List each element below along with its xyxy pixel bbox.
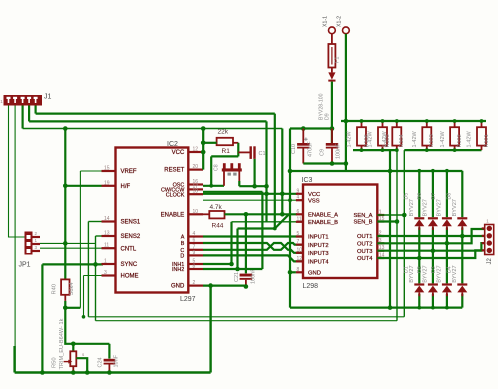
svg-text:SENS1: SENS1 xyxy=(121,220,141,226)
svg-text:1-42W: 1-42W xyxy=(347,130,353,147)
svg-text:R101: R101 xyxy=(484,134,490,147)
svg-text:R44: R44 xyxy=(212,222,224,229)
wire bottom clamp rail y307.6 xyxy=(290,307,462,309)
svg-text:J2: J2 xyxy=(487,258,493,265)
wire J1 pin5 down xyxy=(34,106,36,114)
wire OSC pin line xyxy=(203,185,224,187)
wire +V rail y128.5 xyxy=(290,127,334,129)
trimmer R50 xyxy=(70,351,76,366)
svg-text:VCC: VCC xyxy=(172,150,185,156)
svg-text:OUT2: OUT2 xyxy=(357,242,372,248)
resistor R40 xyxy=(61,279,69,294)
wire SENS1 vertical x88.4 xyxy=(87,222,89,317)
svg-text:D7: D7 xyxy=(431,193,437,200)
diode D1 xyxy=(414,283,424,285)
wire ground rail left riser xyxy=(13,346,15,373)
svg-text:X1-2: X1-2 xyxy=(337,16,343,27)
wire R40 bottom to trimmer top xyxy=(65,308,109,344)
svg-text:470uF: 470uF xyxy=(307,141,313,157)
diode D7 xyxy=(442,217,452,219)
diode D3 xyxy=(442,283,452,285)
svg-text:HOME: HOME xyxy=(121,274,139,280)
resistor R102 xyxy=(450,127,459,145)
wire SENS1 feed xyxy=(88,221,101,223)
svg-text:5: 5 xyxy=(297,231,300,237)
svg-text:7: 7 xyxy=(297,239,300,245)
svg-text:19: 19 xyxy=(104,180,110,186)
svg-text:13: 13 xyxy=(104,231,110,237)
svg-text:BYV27: BYV27 xyxy=(452,265,458,282)
wire R1 right node xyxy=(237,143,239,157)
wire bank top rail y121 xyxy=(341,120,486,122)
wire VREF vertical x80.4 xyxy=(79,171,81,308)
svg-text:H/F: H/F xyxy=(121,184,131,190)
wire VREF pin feed y171 xyxy=(80,170,101,172)
svg-text:L298: L298 xyxy=(303,283,319,290)
wire phase B crossing xyxy=(203,243,303,250)
resonator Q1 xyxy=(223,163,226,171)
diode D4 xyxy=(457,283,467,285)
capacitor C1 xyxy=(250,146,252,159)
wire SENS2 feed xyxy=(96,235,102,237)
wire OUT1 to J2 xyxy=(377,235,484,237)
svg-text:L297: L297 xyxy=(180,296,196,303)
wire bank bottom rail right xyxy=(404,149,481,151)
wire SYNC line y264.4 xyxy=(42,263,103,265)
svg-text:J1: J1 xyxy=(44,94,52,101)
wire OSC branch down x211.2 xyxy=(210,156,212,185)
wire ENABLE cap branch x245.9 xyxy=(245,214,247,273)
svg-text:OUT3: OUT3 xyxy=(357,249,372,255)
wire CNTL feed y248.2 xyxy=(40,247,103,249)
wire ENABLE_A diagonal xyxy=(275,214,289,228)
svg-text:56k4: 56k4 xyxy=(69,282,75,295)
svg-text:1-42W: 1-42W xyxy=(368,130,374,147)
wire vref divider trunk x65.3 xyxy=(64,129,66,280)
svg-text:BYV27: BYV27 xyxy=(422,265,428,282)
wire trimmer top lead xyxy=(72,344,74,352)
svg-text:4.7k: 4.7k xyxy=(210,204,223,211)
svg-text:18: 18 xyxy=(193,189,199,195)
svg-text:VCC: VCC xyxy=(308,192,320,198)
wire IC2 GND drop x210.6 xyxy=(209,286,211,373)
svg-text:SEN_B: SEN_B xyxy=(353,220,372,226)
wire HOME vertical x83.5 xyxy=(83,276,85,317)
wire clamp column x446.9 xyxy=(446,171,448,217)
wire ground rail y372.5 xyxy=(15,371,211,373)
svg-text:BYV27: BYV27 xyxy=(409,199,415,216)
svg-text:BYV27: BYV27 xyxy=(436,199,442,216)
wire phase A xyxy=(203,235,303,237)
svg-text:12: 12 xyxy=(297,256,303,262)
wire cap bottom rail y163.5 xyxy=(303,162,346,164)
wire OUT2 to J2 xyxy=(377,229,484,243)
wire clamp column x462.3 xyxy=(461,171,463,217)
svg-text:D8: D8 xyxy=(446,193,452,200)
svg-text:22k: 22k xyxy=(218,129,229,136)
wire INH1 line xyxy=(203,263,232,265)
svg-text:C21: C21 xyxy=(234,272,240,282)
svg-text:R40: R40 xyxy=(52,284,58,295)
wire D9 to +V rail xyxy=(331,82,333,143)
wire R1 node to OSC branch xyxy=(211,155,238,157)
wire INH1 riser x231.5 xyxy=(230,222,232,264)
svg-text:9: 9 xyxy=(193,250,196,256)
svg-text:IC3: IC3 xyxy=(302,177,313,184)
capacitor C24 xyxy=(104,359,116,362)
wire phase C crossing xyxy=(203,243,303,253)
svg-text:8: 8 xyxy=(297,267,300,273)
wire resonator right to C1 node y186.2 xyxy=(238,181,240,186)
svg-text:1-42W: 1-42W xyxy=(382,130,388,147)
wire trimmer wiper to ground rail xyxy=(76,358,87,372)
svg-text:IC2: IC2 xyxy=(167,141,178,148)
svg-text:10: 10 xyxy=(193,209,199,215)
svg-text:ENABLE_B: ENABLE_B xyxy=(308,220,338,226)
wire OUT3 to J2 xyxy=(377,243,484,251)
svg-text:CLOCK: CLOCK xyxy=(166,192,185,198)
svg-text:10: 10 xyxy=(297,247,303,253)
wire gnd drop x390 xyxy=(389,150,391,308)
svg-text:BYV27: BYV27 xyxy=(422,199,428,216)
diode D9 xyxy=(331,68,333,73)
wire +V trunk x290 xyxy=(289,129,291,308)
wire CW/CCW drop x262.4 xyxy=(261,192,263,269)
wire ENABLE line y214.3 xyxy=(225,213,297,215)
svg-text:INPUT1: INPUT1 xyxy=(308,235,329,241)
wire J1 pin1 down to JP1 row xyxy=(9,106,41,238)
svg-text:OUT4: OUT4 xyxy=(357,256,373,262)
svg-text:1-42W: 1-42W xyxy=(467,130,473,147)
svg-text:C24: C24 xyxy=(98,357,104,367)
svg-text:6: 6 xyxy=(193,238,196,244)
svg-text:A: A xyxy=(181,235,185,241)
wire RESET riser x203.2 xyxy=(202,129,204,170)
wire C1 right plate down xyxy=(254,159,256,186)
svg-text:R1: R1 xyxy=(222,148,231,155)
wire IC2 GND to cap C21 xyxy=(203,285,246,287)
svg-text:OUT1: OUT1 xyxy=(357,234,372,240)
resistor R44 xyxy=(209,211,224,218)
wire J1 pin2 down left edge xyxy=(14,106,16,373)
wire net1 vertical x274.8 xyxy=(274,114,276,229)
svg-text:100nF: 100nF xyxy=(250,268,256,284)
wire IC3 GND to trunk xyxy=(290,271,296,273)
diode D8 xyxy=(457,217,467,219)
terminal X1-2 xyxy=(343,27,350,34)
svg-text:100nF: 100nF xyxy=(336,143,342,159)
wire J1 pin4 down xyxy=(28,106,30,122)
svg-text:1-42W: 1-42W xyxy=(412,130,418,147)
svg-text:C1: C1 xyxy=(259,151,266,157)
wire net2 vertical x266.5 xyxy=(265,121,267,221)
svg-text:D5: D5 xyxy=(403,193,409,200)
diode D2 xyxy=(428,283,438,285)
wire JP1 pin3 drop x42.4 xyxy=(41,264,43,372)
resistor R103 xyxy=(422,127,431,145)
svg-text:D6: D6 xyxy=(417,193,423,200)
op-amp IC3 L298 body xyxy=(303,185,377,279)
wire INH2 riser x237.5 xyxy=(236,229,238,270)
svg-text:11: 11 xyxy=(104,243,109,249)
svg-text:BYV27: BYV27 xyxy=(409,265,415,282)
connector JP1 xyxy=(25,232,33,255)
svg-text:D9: D9 xyxy=(324,113,330,120)
wire SEN_B xyxy=(377,220,397,222)
wire phase D xyxy=(203,255,303,261)
wire HOME feed xyxy=(84,275,104,277)
wire R40 bottom node y307.8 xyxy=(65,307,80,309)
svg-text:INPUT4: INPUT4 xyxy=(308,260,329,266)
svg-text:6: 6 xyxy=(297,209,300,215)
wire net1 horizontal y113.6 xyxy=(36,112,275,114)
resistor R1 xyxy=(217,138,233,145)
svg-text:VREF: VREF xyxy=(121,169,137,175)
svg-text:R102: R102 xyxy=(457,134,463,147)
svg-text:SYNC: SYNC xyxy=(121,262,138,268)
svg-text:B: B xyxy=(181,241,185,247)
wire INH2 line xyxy=(203,268,262,270)
wire to IC3 VSS y200.2 xyxy=(203,199,298,201)
svg-text:4: 4 xyxy=(193,231,196,237)
svg-text:12: 12 xyxy=(193,147,199,153)
svg-text:ENABLE: ENABLE xyxy=(161,212,185,218)
svg-text:F1: F1 xyxy=(335,57,341,63)
capacitor C10 xyxy=(297,143,309,146)
svg-text:C10: C10 xyxy=(291,144,297,154)
resistor R105 xyxy=(378,127,387,145)
wire SENS2 long horizontal y320.7 xyxy=(96,320,398,322)
wire clamp column x419.3 xyxy=(418,171,420,217)
wire SENS1 long horizontal y316.8 xyxy=(88,316,404,318)
svg-text:C8: C8 xyxy=(214,164,220,171)
wire SEN_A xyxy=(377,214,404,216)
svg-text:RESET: RESET xyxy=(164,168,184,174)
wire net3 horizontal y128.5 xyxy=(23,128,283,130)
svg-text:SEN_A: SEN_A xyxy=(353,213,372,219)
wire X1-2 down xyxy=(345,34,347,171)
wire SENSE1 riser x404.3 xyxy=(403,150,405,317)
svg-text:BYV27: BYV27 xyxy=(436,265,442,282)
connector J1 xyxy=(4,95,43,106)
svg-text:VSS: VSS xyxy=(308,198,320,204)
svg-text:INPUT2: INPUT2 xyxy=(308,243,329,249)
connector J2 xyxy=(485,225,494,255)
resistor R101 xyxy=(477,127,486,145)
terminal X1-1 xyxy=(329,27,336,34)
svg-text:D: D xyxy=(180,254,184,260)
svg-text:10nF: 10nF xyxy=(114,354,120,367)
svg-text:20: 20 xyxy=(193,164,199,170)
svg-text:ENABLE_A: ENABLE_A xyxy=(308,213,338,219)
wire J1 pin3 down xyxy=(22,106,24,129)
wire SENSE2 riser x397 xyxy=(396,150,398,321)
wire ENABLE_A line y228.5 xyxy=(238,227,275,229)
svg-text:15: 15 xyxy=(104,166,110,172)
svg-text:TRIM_EU-B64W- 1k: TRIM_EU-B64W- 1k xyxy=(59,318,65,369)
wire OUT4 to J2 xyxy=(377,250,484,258)
wire ENABLE_B line y221.8 xyxy=(232,221,297,223)
fuse F1 xyxy=(331,34,333,44)
svg-text:1: 1 xyxy=(104,259,107,265)
svg-text:9: 9 xyxy=(297,188,300,194)
capacitor C21 xyxy=(240,274,253,277)
wire JP1 pin2 to CNTL node xyxy=(40,242,96,244)
svg-text:GND: GND xyxy=(171,284,185,290)
svg-text:X1-1: X1-1 xyxy=(323,16,329,27)
resistor R104 xyxy=(392,127,401,145)
svg-text:1-42W: 1-42W xyxy=(440,130,446,147)
svg-text:R103: R103 xyxy=(429,134,435,147)
wire cap C24 top lead xyxy=(108,344,110,359)
svg-text:8: 8 xyxy=(193,264,196,270)
svg-text:11: 11 xyxy=(297,216,302,222)
svg-text:INH2: INH2 xyxy=(172,267,184,273)
diode D5 xyxy=(414,217,424,219)
wire net2 horizontal y121.4 xyxy=(29,120,266,122)
svg-text:CNTL: CNTL xyxy=(121,246,137,252)
wire SENS2 vertical x95.5 xyxy=(95,236,97,321)
svg-text:3: 3 xyxy=(104,270,107,276)
diode D6 xyxy=(428,217,438,219)
svg-text:4: 4 xyxy=(297,195,300,201)
svg-text:INPUT3: INPUT3 xyxy=(308,251,329,257)
svg-text:14: 14 xyxy=(104,216,110,222)
resistor R106 xyxy=(357,127,366,145)
capacitor C9 xyxy=(326,143,338,146)
wire CLOCK to IC3 VCC y193.8 xyxy=(203,193,297,195)
op-amp IC2 L297 body xyxy=(116,148,189,293)
svg-text:BYV27: BYV27 xyxy=(452,199,458,216)
wire ground distribution y171 xyxy=(290,170,462,172)
svg-text:R104: R104 xyxy=(399,134,405,147)
svg-text:R50: R50 xyxy=(52,357,58,368)
wire bank bottom rail left xyxy=(353,149,397,151)
svg-text:JP1: JP1 xyxy=(19,262,31,269)
svg-text:GND: GND xyxy=(308,271,321,277)
svg-text:SENS2: SENS2 xyxy=(121,234,141,240)
svg-text:C9: C9 xyxy=(319,149,325,156)
wire clamp column x432.9 xyxy=(432,171,434,217)
svg-text:2: 2 xyxy=(193,280,196,286)
wire net3 vertical x282.3 xyxy=(281,129,283,215)
wire H/F pin feed xyxy=(65,185,101,187)
wire CW/CCW line y191.8 xyxy=(203,191,262,193)
